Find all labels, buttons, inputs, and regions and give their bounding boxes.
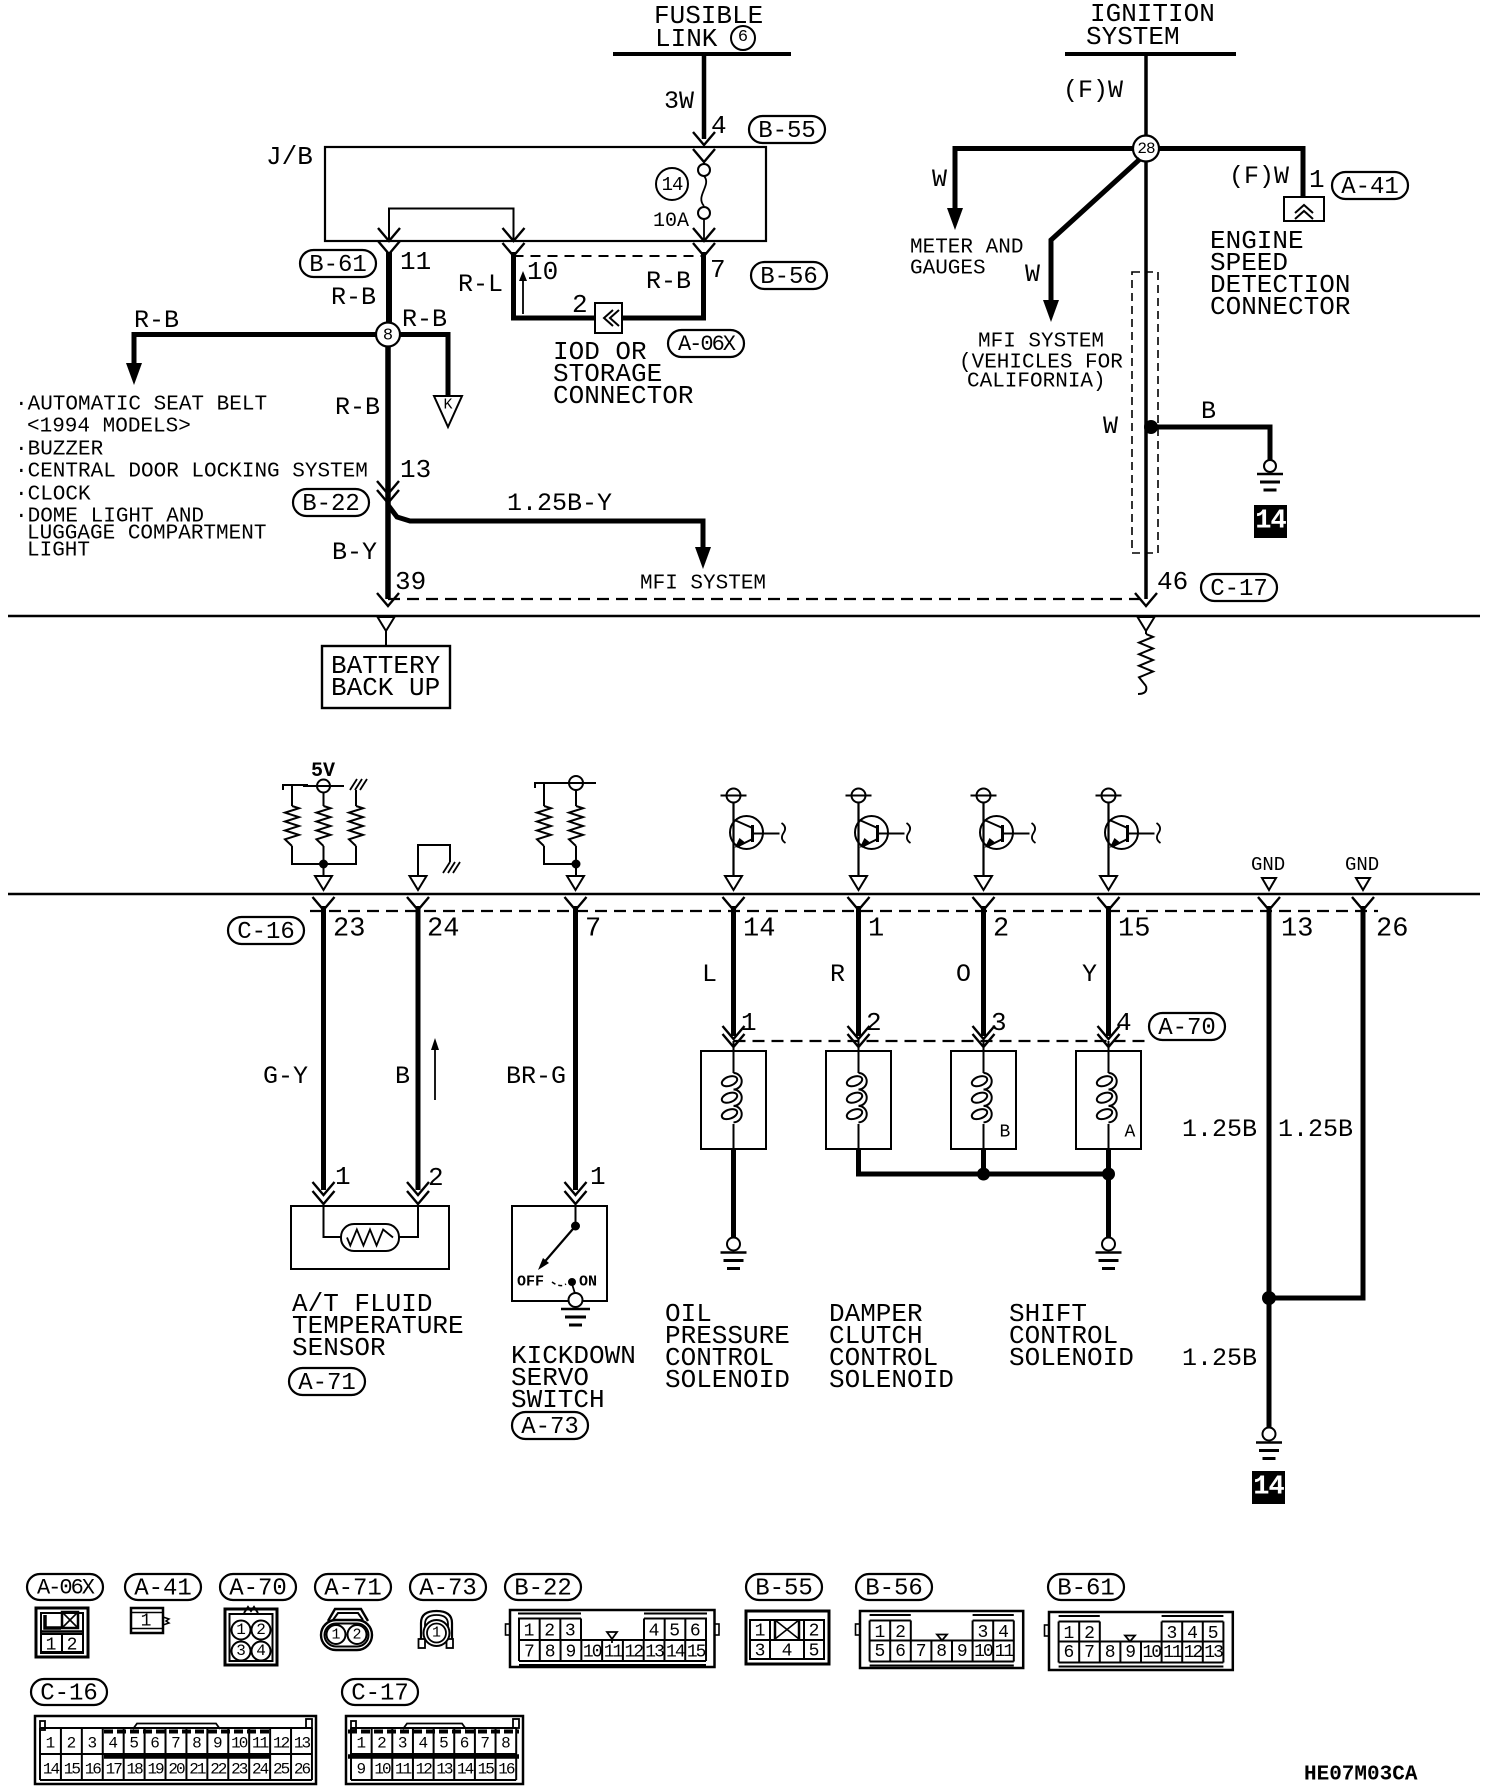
ECU terminal triangle pin7	[567, 876, 584, 890]
wire F W ignition down to node 28	[1144, 54, 1148, 137]
svg-text:25: 25	[273, 1761, 290, 1779]
svg-text:9: 9	[1125, 1643, 1136, 1663]
connector A-73 pin diagram	[421, 1611, 452, 1646]
chevron pin 2 section2	[973, 897, 995, 910]
transistor driver Q3	[971, 795, 997, 797]
svg-text:1.25B: 1.25B	[1182, 1115, 1257, 1144]
terminal slot battery	[378, 617, 395, 631]
svg-text:10: 10	[1142, 1643, 1161, 1663]
svg-text:28: 28	[1137, 140, 1155, 158]
svg-text:8: 8	[383, 327, 393, 346]
svg-text:4: 4	[418, 1735, 428, 1753]
svg-text:SOLENOID: SOLENOID	[1009, 1343, 1134, 1373]
svg-text:(F)W: (F)W	[1063, 76, 1123, 105]
svg-text:2: 2	[809, 1621, 820, 1641]
svg-text:9: 9	[357, 1761, 367, 1779]
svg-text:16: 16	[498, 1761, 515, 1779]
svg-text:1.25B: 1.25B	[1278, 1115, 1353, 1144]
svg-text:·AUTOMATIC SEAT BELT: ·AUTOMATIC SEAT BELT	[15, 393, 267, 416]
ground 1.25B bottom	[1263, 1428, 1276, 1441]
svg-text:B-61: B-61	[1057, 1575, 1115, 1602]
arrow up beside wire B	[434, 1048, 436, 1100]
svg-text:R-B: R-B	[402, 305, 447, 334]
connector chevrons AT sensor	[313, 1182, 335, 1195]
svg-text:9: 9	[213, 1735, 223, 1753]
svg-text:B: B	[1000, 1122, 1011, 1142]
svg-text:1: 1	[868, 915, 884, 945]
svg-text:1: 1	[590, 1162, 606, 1192]
dashed box around W wire	[1132, 272, 1158, 553]
svg-text:1: 1	[46, 1635, 57, 1655]
svg-text:GAUGES: GAUGES	[910, 257, 986, 280]
svg-text:METER AND: METER AND	[910, 236, 1023, 259]
svg-text:C-17: C-17	[351, 1680, 409, 1707]
ECU terminal triangle pin24	[410, 876, 427, 890]
svg-text:CONNECTOR: CONNECTOR	[1210, 292, 1350, 322]
switch throw arc	[552, 1282, 566, 1286]
connector C-16 label oval row2	[31, 1679, 107, 1705]
connector label ovals row1	[27, 1574, 103, 1600]
chevron pin 39	[377, 593, 399, 606]
wire W node28 down to pin 46	[1144, 161, 1148, 599]
terminal triangle GND left	[1262, 878, 1276, 890]
arrow up beside pin 10	[522, 274, 524, 314]
svg-text:5: 5	[874, 1642, 885, 1662]
svg-text:LINK: LINK	[655, 24, 718, 54]
svg-text:9: 9	[566, 1642, 577, 1662]
svg-text:A-06X: A-06X	[678, 332, 736, 357]
wire F W right branch to A-41	[1158, 149, 1303, 198]
chevron pin10 above J/B bottom edge	[503, 228, 525, 241]
svg-text:3: 3	[236, 1642, 246, 1660]
svg-text:4: 4	[711, 111, 727, 141]
wire oil solenoid to ground	[731, 1149, 736, 1238]
svg-text:1: 1	[432, 1624, 441, 1641]
svg-text:2: 2	[993, 915, 1009, 945]
connector A-71 pin diagram	[321, 1620, 372, 1650]
svg-text:8: 8	[545, 1642, 556, 1662]
svg-text:13: 13	[294, 1735, 311, 1753]
svg-text:HE07M03CA: HE07M03CA	[1304, 1763, 1418, 1786]
ground oil pressure solenoid	[727, 1238, 740, 1251]
chevron pin 14 section2	[723, 897, 745, 910]
svg-text:R-B: R-B	[646, 267, 691, 296]
svg-text:ON: ON	[579, 1273, 597, 1290]
switch arm	[541, 1226, 576, 1266]
svg-text:B-55: B-55	[755, 1575, 813, 1602]
svg-text:14: 14	[457, 1761, 474, 1779]
svg-text:A: A	[1125, 1122, 1136, 1142]
svg-text:14: 14	[662, 174, 683, 196]
svg-text:5: 5	[1208, 1624, 1219, 1644]
svg-text:GND: GND	[1251, 854, 1285, 876]
svg-text:14: 14	[43, 1761, 60, 1779]
wire join pullup group	[292, 846, 356, 864]
svg-text:4: 4	[998, 1623, 1009, 1643]
wire W diagonal branch mfi california	[1051, 159, 1140, 300]
svg-text:C-16: C-16	[237, 919, 295, 946]
svg-text:24: 24	[427, 915, 459, 945]
svg-text:10: 10	[231, 1735, 248, 1753]
svg-text:13: 13	[436, 1761, 453, 1779]
svg-text:14: 14	[743, 915, 775, 945]
svg-text:11: 11	[252, 1735, 269, 1753]
svg-text:2: 2	[377, 1735, 387, 1753]
chevron pin 23	[313, 897, 335, 910]
svg-text:7: 7	[480, 1735, 490, 1753]
wire B-Y pin13 to pin 39	[385, 488, 391, 599]
junction dot solenoid bus 1	[978, 1168, 990, 1180]
svg-text:3: 3	[991, 1008, 1007, 1038]
svg-text:7: 7	[171, 1735, 181, 1753]
svg-text:1: 1	[46, 1735, 56, 1753]
svg-text:10A: 10A	[653, 210, 689, 233]
connector C-17 label oval row2	[342, 1679, 418, 1705]
svg-text:B-56: B-56	[760, 264, 818, 291]
svg-text:3: 3	[977, 1623, 988, 1643]
connector B-56 pin diagram	[860, 1611, 1023, 1668]
stub bracket left of pin7 group	[535, 783, 560, 788]
fuse in J/B wiggle	[701, 176, 706, 206]
connector A-70 double chevrons	[723, 1026, 745, 1039]
connector A-41 label oval	[1332, 172, 1408, 199]
svg-text:4: 4	[649, 1621, 660, 1641]
resistor R-a pullup	[285, 806, 299, 846]
svg-text:2: 2	[1084, 1624, 1095, 1644]
chevron pin11 below J/B bottom edge	[378, 241, 400, 254]
svg-text:·CLOCK: ·CLOCK	[15, 483, 91, 506]
svg-text:B: B	[395, 1062, 410, 1091]
svg-text:B-22: B-22	[302, 491, 360, 518]
svg-text:4: 4	[1116, 1008, 1132, 1038]
ground kickdown switch	[569, 1293, 583, 1307]
solenoid L4 shift control coil box A	[1076, 1051, 1141, 1149]
connector A-06X pin diagram	[36, 1608, 88, 1657]
svg-text:CONNECTOR: CONNECTOR	[553, 381, 693, 411]
resistor R-c pullup	[349, 806, 363, 846]
svg-text:R-B: R-B	[335, 393, 380, 422]
svg-text:G-Y: G-Y	[263, 1062, 308, 1091]
svg-text:A-71: A-71	[324, 1575, 382, 1602]
svg-text:10: 10	[374, 1761, 391, 1779]
transistor driver Q4	[1096, 795, 1122, 797]
stub hatch right of 5V group	[355, 790, 357, 806]
connector C-17 label oval	[1201, 574, 1277, 601]
svg-text:10: 10	[583, 1642, 602, 1662]
ECU boundary line section2	[8, 893, 1480, 896]
svg-text:24: 24	[252, 1761, 269, 1779]
svg-text:1.25B: 1.25B	[1182, 1344, 1257, 1373]
svg-text:A-73: A-73	[419, 1575, 477, 1602]
svg-text:12: 12	[1184, 1643, 1203, 1663]
svg-text:W: W	[932, 165, 947, 194]
svg-text:8: 8	[501, 1735, 511, 1753]
svg-text:A-06X: A-06X	[37, 1576, 95, 1601]
svg-text:17: 17	[106, 1761, 123, 1779]
svg-text:11: 11	[604, 1642, 623, 1662]
chevron pin11 above J/B bottom edge	[378, 228, 400, 241]
svg-text:15: 15	[64, 1761, 81, 1779]
svg-text:SWITCH: SWITCH	[511, 1385, 605, 1415]
connector C-17 pin diagram	[346, 1716, 523, 1784]
svg-text:4: 4	[256, 1642, 266, 1660]
ECU terminal triangle pin23	[315, 876, 332, 890]
svg-text:2: 2	[67, 1635, 78, 1655]
switch to ground wire	[572, 1284, 576, 1295]
wire 1.25B pin13 ground	[1267, 906, 1272, 1428]
wire L pin14 to solenoid	[731, 906, 736, 1036]
svg-text:C-16: C-16	[40, 1680, 98, 1707]
solenoid L1 oil pressure coil box	[701, 1051, 766, 1149]
svg-text:18: 18	[127, 1761, 144, 1779]
connector B-61 pin diagram	[1049, 1612, 1233, 1670]
connector B-61 label oval	[300, 250, 376, 277]
chevron pin 1 section2	[848, 897, 870, 910]
chevron pin 13 section2	[1258, 897, 1280, 910]
svg-text:2: 2	[866, 1008, 882, 1038]
connector B-55 pin diagram	[746, 1611, 829, 1664]
svg-text:1: 1	[335, 1162, 351, 1192]
svg-text:R: R	[830, 960, 845, 989]
wire W left branch meter	[955, 149, 1134, 209]
svg-text:·BUZZER: ·BUZZER	[15, 438, 104, 461]
terminal K triangle	[434, 396, 462, 427]
svg-text:4: 4	[782, 1641, 793, 1661]
svg-text:BACK UP: BACK UP	[331, 673, 440, 703]
svg-text:3: 3	[755, 1641, 766, 1661]
svg-text:·CENTRAL DOOR LOCKING SYSTEM: ·CENTRAL DOOR LOCKING SYSTEM	[15, 460, 368, 483]
svg-text:14: 14	[1253, 1473, 1284, 1503]
junction box J/B outline	[325, 147, 766, 241]
svg-text:A-41: A-41	[134, 1575, 192, 1602]
svg-text:B-56: B-56	[865, 1575, 923, 1602]
svg-text:15: 15	[1118, 915, 1150, 945]
svg-text:B-55: B-55	[758, 118, 816, 145]
svg-text:1: 1	[874, 1623, 885, 1643]
connector A-70 pin diagram	[225, 1609, 277, 1665]
svg-text:OFF: OFF	[517, 1273, 544, 1290]
svg-text:6: 6	[150, 1735, 160, 1753]
svg-text:1: 1	[141, 1611, 152, 1631]
connector B-22 label oval	[293, 489, 369, 516]
svg-text:C-17: C-17	[1210, 576, 1268, 603]
svg-text:8: 8	[1105, 1643, 1116, 1663]
bus bar ignition system	[1065, 52, 1236, 56]
svg-text:2: 2	[428, 1163, 444, 1193]
wires inside AT sensor	[324, 1206, 342, 1237]
stub bracket left of 5V group	[283, 785, 308, 790]
svg-text:2: 2	[572, 290, 588, 320]
svg-text:SYSTEM: SYSTEM	[1086, 22, 1180, 52]
svg-text:L: L	[702, 960, 717, 989]
connector B-22 pin diagram	[510, 1610, 715, 1667]
wire Y pin15 to solenoid	[1106, 906, 1111, 1036]
component AT fluid temp sensor box	[291, 1206, 449, 1269]
resistor R-b pullup	[323, 793, 325, 807]
svg-text:10: 10	[527, 257, 558, 287]
node 28 junction circle	[1133, 136, 1159, 162]
svg-text:2: 2	[256, 1621, 266, 1639]
svg-text:7: 7	[585, 915, 601, 945]
svg-text:<1994 MODELS>: <1994 MODELS>	[27, 415, 191, 438]
solenoid L3 shift control coil box B	[951, 1051, 1016, 1149]
separator line section1	[8, 615, 1480, 618]
svg-text:13: 13	[1204, 1643, 1223, 1663]
chevron pin10 below on B-56 line	[503, 243, 525, 256]
svg-text:2: 2	[895, 1623, 906, 1643]
svg-text:R-B: R-B	[331, 283, 376, 312]
svg-text:11: 11	[995, 1642, 1014, 1662]
dashed connector line A-70	[734, 1040, 1146, 1042]
chevron pin 24	[407, 897, 429, 910]
svg-text:A-70: A-70	[229, 1575, 287, 1602]
svg-text:5: 5	[669, 1621, 680, 1641]
svg-text:1.25B-Y: 1.25B-Y	[507, 489, 612, 518]
wire 3W from fusible link to J/B pin 4	[702, 54, 707, 139]
svg-text:1: 1	[755, 1621, 766, 1641]
bus bar fusible link	[613, 52, 791, 56]
hatch internal ground pin24	[443, 862, 450, 873]
svg-text:MFI SYSTEM: MFI SYSTEM	[640, 572, 766, 595]
transistor driver Q1	[721, 795, 747, 797]
chevron pin 15 section2	[1098, 897, 1120, 910]
svg-text:1: 1	[236, 1621, 246, 1639]
svg-text:1: 1	[357, 1735, 367, 1753]
component BATTERY BACK UP box	[322, 646, 450, 708]
connector A-71 label oval sec2	[289, 1368, 365, 1395]
connector A-06X label oval	[668, 330, 744, 357]
svg-text:W: W	[1025, 260, 1040, 289]
svg-text:26: 26	[294, 1761, 311, 1779]
resistor R-e pullup	[575, 790, 577, 806]
svg-text:B-22: B-22	[514, 1575, 572, 1602]
svg-text:1: 1	[741, 1008, 757, 1038]
svg-text:21: 21	[189, 1761, 206, 1779]
svg-text:7: 7	[524, 1642, 535, 1662]
connector A-41 pin diagram	[131, 1608, 163, 1633]
wire solenoid bus join	[859, 1149, 1109, 1174]
svg-text:SOLENOID: SOLENOID	[665, 1365, 790, 1395]
ground ref 14 black box bottom	[1252, 1471, 1285, 1504]
svg-text:11: 11	[1163, 1643, 1182, 1663]
svg-text:8: 8	[936, 1642, 947, 1662]
ground chassis right of ignition wire	[1264, 460, 1276, 472]
svg-text:26: 26	[1376, 915, 1408, 945]
wire R pin1 to solenoid	[856, 906, 861, 1036]
connector chevrons kickdown	[565, 1182, 587, 1195]
svg-text:O: O	[956, 960, 971, 989]
chevron pin4 inside J/B	[693, 149, 715, 162]
svg-text:BR-G: BR-G	[506, 1062, 566, 1091]
ground shift solenoid	[1102, 1238, 1115, 1251]
connector A-70 label oval sec2	[1149, 1013, 1225, 1040]
svg-text:2: 2	[352, 1626, 361, 1643]
resistor R-d pullup	[537, 806, 551, 846]
connector C-16 pin diagram	[35, 1716, 316, 1784]
node 8 junction circle	[376, 323, 400, 347]
svg-text:6: 6	[460, 1735, 470, 1753]
svg-text:15: 15	[478, 1761, 495, 1779]
junction dot pin7 group	[572, 860, 580, 868]
switch ON contact dot	[569, 1279, 576, 1286]
svg-text:A-70: A-70	[1158, 1015, 1216, 1042]
power circle pin7 group	[556, 782, 596, 784]
svg-text:39: 39	[395, 567, 426, 597]
connector B-56 label oval	[751, 262, 827, 289]
svg-text:SOLENOID: SOLENOID	[829, 1365, 954, 1395]
svg-text:A-41: A-41	[1341, 174, 1399, 201]
svg-text:6: 6	[895, 1642, 906, 1662]
power circle 5V	[303, 785, 344, 787]
connector C-16 label oval	[228, 917, 304, 944]
J/B internal sub-box	[389, 209, 514, 242]
ground ref 14 black box	[1254, 505, 1287, 538]
svg-text:10: 10	[974, 1642, 993, 1662]
svg-text:3: 3	[565, 1621, 576, 1641]
switch wire and pivot	[575, 1206, 577, 1225]
svg-text:12: 12	[624, 1642, 643, 1662]
connector A-41 terminal box	[1284, 197, 1324, 221]
svg-text:5: 5	[129, 1735, 139, 1753]
svg-text:MFI SYSTEM: MFI SYSTEM	[978, 330, 1104, 353]
fuse in J/B circle top	[703, 160, 705, 164]
chevron pin 26 section2	[1352, 897, 1374, 910]
wire 1.25B-Y branch to MFI	[388, 505, 703, 547]
connector A-73 label oval sec2	[512, 1412, 588, 1439]
svg-text:1: 1	[1063, 1624, 1074, 1644]
connector B-22 double chevron	[377, 481, 399, 494]
svg-text:CALIFORNIA): CALIFORNIA)	[967, 370, 1106, 393]
svg-text:B: B	[1201, 397, 1216, 426]
svg-text:R-L: R-L	[458, 270, 503, 299]
svg-text:W: W	[1103, 412, 1118, 441]
svg-text:15: 15	[687, 1642, 706, 1662]
fuse number 14 circle	[656, 168, 688, 200]
connector pass-through box A-06X	[595, 303, 622, 333]
svg-text:3: 3	[1166, 1624, 1177, 1644]
wire shift solenoid to ground	[1106, 1174, 1111, 1238]
wire B pin24 to sensor	[416, 906, 421, 1190]
svg-text:22: 22	[210, 1761, 227, 1779]
svg-text:K: K	[443, 396, 452, 413]
svg-text:23: 23	[333, 915, 365, 945]
svg-text:A-73: A-73	[521, 1414, 579, 1441]
svg-text:8: 8	[192, 1735, 202, 1753]
svg-text:6: 6	[690, 1621, 701, 1641]
resistor coil to ground right	[1139, 634, 1153, 686]
svg-text:1: 1	[1309, 165, 1325, 195]
svg-text:3: 3	[87, 1735, 97, 1753]
svg-text:11: 11	[395, 1761, 412, 1779]
transistor driver Q2	[846, 795, 872, 797]
svg-text:LIGHT: LIGHT	[27, 539, 90, 562]
svg-text:3: 3	[398, 1735, 408, 1753]
wire BR-G pin7 to kickdown	[573, 906, 578, 1190]
terminal slot ignition ground	[1138, 617, 1155, 631]
svg-text:12: 12	[416, 1761, 433, 1779]
svg-text:Y: Y	[1082, 960, 1097, 989]
svg-text:13: 13	[1281, 915, 1313, 945]
svg-text:7: 7	[1084, 1643, 1095, 1663]
wire G-Y pin23 to sensor	[321, 906, 326, 1190]
dashed connector line B-56	[514, 255, 705, 257]
svg-text:4: 4	[108, 1735, 118, 1753]
dashed connector line C-16	[310, 910, 1378, 912]
wire IOD loop	[514, 252, 704, 318]
thermistor symbol	[341, 1224, 399, 1251]
svg-text:12: 12	[273, 1735, 290, 1753]
svg-text:7: 7	[916, 1642, 927, 1662]
